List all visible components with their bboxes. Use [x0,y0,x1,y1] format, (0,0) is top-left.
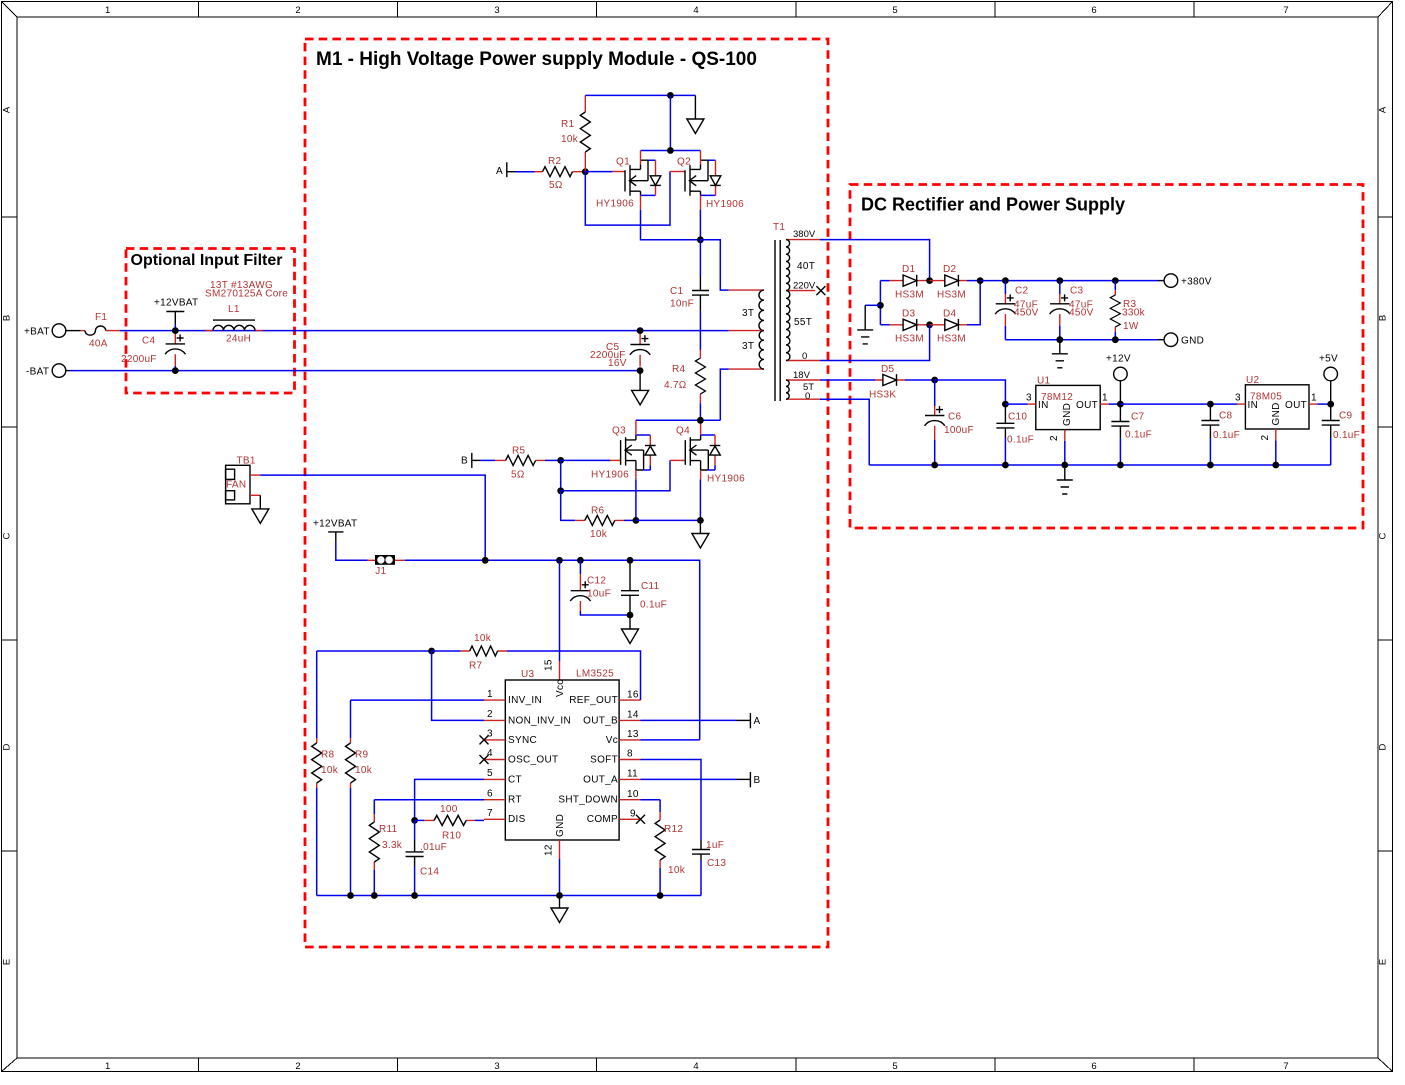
dashed box Optional Input Filter [126,249,295,394]
wire NON_INV_IN [432,651,484,720]
svg-text:GND: GND [1271,402,1282,425]
wire 5T zero tap to ground rail [820,399,869,465]
wire B node to Q3 gate [561,459,610,461]
svg-text:Q3: Q3 [612,426,626,437]
svg-text:3: 3 [494,1061,499,1072]
wire DC ground rail [869,464,1330,466]
junction R3 bottom [1112,336,1119,343]
svg-text:E: E [1378,959,1389,965]
svg-text:1uF: 1uF [706,840,724,851]
svg-text:1: 1 [1102,393,1108,404]
svg-text:16: 16 [627,689,639,700]
wire R7 left rail [317,650,432,652]
svg-text:OUT_B: OUT_B [583,715,618,726]
junction C10 bottom [1002,462,1009,469]
junction R9 bottom [347,892,354,899]
svg-text:7: 7 [1283,5,1288,16]
svg-text:D: D [1378,743,1389,750]
svg-text:2: 2 [487,709,493,720]
svg-text:+12VBAT: +12VBAT [313,519,357,530]
wire U3 ground rail [317,895,701,897]
svg-text:HY1906: HY1906 [591,470,629,481]
svg-text:HS3M: HS3M [937,290,966,301]
svg-text:INV_IN: INV_IN [508,695,542,706]
svg-text:C9: C9 [1339,411,1353,422]
svg-text:C4: C4 [142,336,156,347]
svg-text:0.1uF: 0.1uF [1213,430,1240,441]
svg-text:A: A [754,716,761,727]
svg-text:+5V: +5V [1319,354,1338,365]
svg-text:4: 4 [693,1061,698,1072]
svg-text:DIS: DIS [508,814,526,825]
transistor Q1 [596,151,661,210]
svg-text:LM3525: LM3525 [576,668,614,679]
capacitor C7 [1111,404,1152,465]
junction bridge anode mid [877,302,884,309]
svg-text:M1 - High Voltage Power supply: M1 - High Voltage Power supply Module - … [316,49,757,70]
junction U1 in node [1002,401,1009,408]
svg-text:SM270125A Core: SM270125A Core [205,289,288,300]
wire SHT_DOWN to R12 [641,799,661,801]
svg-text:18V: 18V [793,370,811,381]
svg-text:24uH: 24uH [226,334,251,345]
svg-text:7: 7 [1283,1061,1288,1072]
wire Q3 source to R6 node [635,479,637,520]
svg-text:C11: C11 [641,581,660,592]
junction U1 gnd [1061,462,1068,469]
junction C11/C12 ground node [627,612,634,619]
junction C11 branch [627,557,634,564]
resistor R4 [664,350,705,403]
svg-text:10k: 10k [321,765,339,776]
pin 12 wire to rail [559,859,561,896]
ground at U3 rail [551,896,568,923]
svg-text:8: 8 [627,749,633,760]
T1 primary winding lower 3T [729,331,764,370]
svg-text:TB1: TB1 [237,456,256,467]
svg-text:10uF: 10uF [587,589,611,600]
svg-text:C: C [2,532,13,539]
junction U2 gnd [1272,462,1279,469]
svg-text:0.1uF: 0.1uF [1333,430,1360,441]
diode D4 [930,309,967,345]
svg-text:6: 6 [1091,1061,1096,1072]
svg-text:COMP: COMP [587,814,618,825]
svg-text:D5: D5 [881,364,895,375]
svg-text:R8: R8 [321,750,335,761]
fuse F1 [66,312,120,350]
svg-text:D4: D4 [943,309,957,320]
wire Q2 source to center node [699,210,701,240]
frame column numbers top [105,5,1289,16]
wire lower node to primary bottom [720,369,728,420]
junction C8 top [1207,401,1214,408]
transistor Q4 [670,420,745,484]
ground at C5 [632,371,649,405]
junction B node upper [557,457,564,464]
svg-text:A: A [1378,106,1389,113]
resistor R5 [495,446,545,481]
T1 secondary 55T winding [786,281,820,363]
svg-text:D1: D1 [902,264,916,275]
svg-text:CT: CT [508,774,522,785]
svg-text:100uF: 100uF [944,425,974,436]
junction Q4 source node [697,517,704,524]
wire 380V ground rail [1005,339,1158,341]
ground earth at bridge [857,305,873,344]
wire -BAT rail [70,370,640,372]
wire top rail to drain rail [669,95,671,150]
svg-text:Q2: Q2 [677,157,691,168]
power tap +12VBAT (J1) [313,519,368,561]
svg-text:-BAT: -BAT [26,366,49,377]
resistor R3 [1110,281,1145,340]
svg-text:5Ω: 5Ω [511,470,525,481]
svg-text:4: 4 [487,748,493,759]
svg-text:T1: T1 [773,222,785,233]
junction +5V node [1327,401,1334,408]
svg-text:C14: C14 [420,867,439,878]
svg-text:0.1uF: 0.1uF [1007,435,1034,446]
resistor R11 [369,800,403,896]
wire 55T zero tap to D3/D4 [820,325,930,361]
junction C7 bottom [1117,462,1124,469]
junction R12 bottom [657,892,664,899]
svg-text:3: 3 [1235,393,1241,404]
port A (drive input) [496,162,515,177]
wire B node to Q4 gate [561,460,670,490]
svg-text:4: 4 [693,5,698,16]
svg-text:A: A [2,106,13,113]
wire +12V node to U2 [1120,403,1237,405]
svg-text:HY1906: HY1906 [706,199,744,210]
junction fan wire on rail [482,557,489,564]
resistor R9 [346,700,373,895]
junction rectifier output [977,277,984,284]
svg-text:0.1uF: 0.1uF [1125,430,1152,441]
U1 pin 3 stub [1026,393,1036,405]
transistor Q3 [591,420,656,480]
wire Vcc pin line [559,560,561,661]
wire R4 bottom to lower node [699,403,701,420]
resistor R12 [655,800,686,896]
junction CT/R10/C14 [411,817,418,824]
svg-text:SHT_DOWN: SHT_DOWN [558,795,618,806]
svg-text:HS3K: HS3K [869,390,896,401]
svg-text:+12VBAT: +12VBAT [154,297,198,308]
svg-text:B: B [1378,315,1389,321]
svg-text:10nF: 10nF [670,299,694,310]
no-connect X at COMP [636,815,645,824]
resistor R6 [575,506,624,541]
capacitor C3 [1050,281,1094,340]
junction R3 top [1112,277,1119,284]
U3 pin numbers left [487,689,493,819]
wire D5 to C6 node [905,379,935,381]
svg-text:Q1: Q1 [616,157,630,168]
wire center node to primary top [700,240,728,290]
svg-text:100: 100 [440,804,458,815]
svg-text:FAN: FAN [226,479,246,490]
junction top rail [667,92,674,99]
svg-text:IN: IN [1038,400,1049,411]
svg-text:Vc: Vc [606,735,618,746]
wire R5 to junction [545,459,561,461]
svg-text:U2: U2 [1246,375,1260,386]
svg-text:1: 1 [105,5,110,16]
wire bridge anode column [880,281,889,325]
junction C3 top [1056,277,1063,284]
resistor R2 [535,156,586,191]
svg-text:D: D [2,743,13,750]
svg-text:3: 3 [487,729,493,740]
capacitor C5 [590,334,650,369]
svg-text:C: C [1378,532,1389,539]
svg-text:F1: F1 [95,312,107,323]
wire 18V tap to D5 [820,379,876,381]
IC U1 78M12 [1036,376,1100,430]
terminal +12V [1106,354,1131,405]
svg-text:7: 7 [487,808,493,819]
svg-text:OUT_A: OUT_A [583,774,618,785]
svg-text:R12: R12 [664,824,683,835]
svg-text:2: 2 [295,5,300,16]
U2 pin 2 stub [1260,429,1276,441]
svg-text:3T: 3T [742,308,754,319]
svg-text:330k: 330k [1122,308,1146,319]
capacitor C11 [621,560,667,615]
svg-text:5Ω: 5Ω [549,180,563,191]
junction C5 bottom [637,367,644,374]
svg-text:A: A [496,166,503,177]
svg-text:U3: U3 [521,669,535,680]
U2 pin 3 stub [1235,393,1245,405]
svg-text:2200uF: 2200uF [121,354,157,365]
junction R11 bottom [371,892,378,899]
resistor R10 [415,804,484,842]
svg-text:3: 3 [494,5,499,16]
junction C8 bottom [1207,462,1214,469]
svg-text:10k: 10k [355,765,373,776]
no-connect X at 220V tap [816,286,825,295]
svg-text:+BAT: +BAT [24,326,50,337]
svg-text:C13: C13 [707,858,726,869]
svg-text:Optional Input Filter: Optional Input Filter [131,252,283,269]
capacitor C2 [995,281,1038,340]
wire U1 gnd to rail [1064,441,1066,465]
wire R6 branch [561,491,576,521]
junction R1/R2/Q1 gate [582,168,589,175]
svg-text:0: 0 [805,391,810,402]
junction C6 top [931,377,938,384]
svg-text:0.1uF: 0.1uF [640,600,667,611]
svg-text:GND: GND [1062,403,1073,426]
wire 380V tap to bridge [820,240,930,281]
pin 12 stub [544,840,560,859]
dashed box DC Rectifier and Power Supply [850,185,1363,529]
ground at R1 top rail [687,95,704,133]
svg-text:U1: U1 [1037,376,1051,387]
wire CT [415,779,484,820]
wire TB1 fan to +12V rail [260,475,485,560]
svg-text:10: 10 [627,789,639,800]
junction C6 bottom [931,462,938,469]
svg-text:5: 5 [892,1061,897,1072]
wire R6 to Q3 source node [624,519,636,521]
svg-text:40A: 40A [89,339,108,350]
junction drain rail [667,147,674,154]
svg-text:R7: R7 [469,661,483,672]
svg-text:1: 1 [487,689,493,700]
ground at C11 [622,615,639,644]
svg-text:R2: R2 [548,156,562,167]
junction C4 bottom [172,367,179,374]
T1 secondary 5T winding [786,370,820,402]
terminal +380V [1158,274,1212,288]
U1 pin 2 stub [1049,430,1065,441]
svg-text:B: B [461,455,468,466]
svg-text:.01uF: .01uF [420,842,447,853]
terminal +5V [1319,354,1338,405]
wire INV_IN [351,699,485,701]
diode D2 [930,264,967,301]
wire D2 out [967,280,980,282]
svg-text:SYNC: SYNC [508,735,537,746]
svg-text:D2: D2 [943,264,957,275]
U3 left pin stubs [484,700,505,819]
wire A to R2 [515,171,535,173]
svg-text:40T: 40T [797,261,815,272]
svg-text:D3: D3 [902,309,916,320]
terminal +BAT [24,324,66,338]
svg-text:DC Rectifier and Power Supply: DC Rectifier and Power Supply [861,195,1125,215]
IC U3 LM3525 [505,668,619,840]
wire C6 node to U1 in [935,380,1006,404]
svg-text:SOFT: SOFT [590,754,618,765]
svg-text:R4: R4 [672,364,686,375]
svg-text:HS3M: HS3M [895,334,924,345]
svg-text:C10: C10 [1008,412,1027,423]
wire lower drain rail [636,419,720,421]
capacitor C10 [996,404,1034,465]
svg-text:450V: 450V [1069,308,1094,319]
svg-text:C2: C2 [1015,286,1029,297]
ground at Q4 source [692,520,709,548]
wire +380V bus [980,280,1158,282]
svg-text:220V: 220V [793,281,816,292]
wire D4 out up [967,281,980,325]
TB1 pin 1 stub [250,474,260,476]
junction B node lower [557,487,564,494]
port A (output right) [737,713,761,728]
wire Q1/Q2 drain rail [641,150,701,152]
svg-text:13: 13 [627,729,639,740]
svg-text:C7: C7 [1131,412,1145,423]
diode D5 [869,364,905,401]
svg-text:14: 14 [627,710,639,721]
svg-text:1: 1 [105,1061,110,1072]
svg-text:6: 6 [487,788,493,799]
wire OUT_B to port A [641,719,737,721]
resistor R1 [561,95,590,171]
junction Q3 source node [633,517,640,524]
svg-text:HY1906: HY1906 [596,199,634,210]
wire A net to Q2 gate [585,172,670,226]
svg-text:1W: 1W [1123,321,1139,332]
svg-text:Q4: Q4 [676,426,690,437]
frame column numbers bottom [105,1061,1289,1072]
terminal -BAT [26,364,70,378]
svg-text:2: 2 [1260,435,1271,441]
junction center node top [697,236,704,243]
T1 primary winding upper 3T [729,290,764,331]
pin 15 stub [544,659,560,680]
junction lower node [697,417,704,424]
svg-text:450V: 450V [1014,308,1039,319]
frame row letters left [2,106,13,965]
wire OUT_A to port B [641,778,737,780]
svg-text:16V: 16V [608,358,627,369]
capacitor C8 [1201,404,1240,465]
svg-text:R9: R9 [355,750,369,761]
junction D3/D4 [926,321,933,328]
TB1 pin 2 stub to ground [250,494,260,496]
svg-text:C12: C12 [587,576,606,587]
svg-text:2: 2 [295,1061,300,1072]
wire Q3 source node to Q4 source node [636,519,701,521]
svg-text:12: 12 [544,844,555,856]
resistor R7 [432,633,507,672]
svg-text:R1: R1 [561,119,575,130]
svg-text:REF_OUT: REF_OUT [569,695,618,706]
svg-text:B: B [754,775,761,786]
capacitor C1 [670,240,709,350]
wire U1 out to +12V node [1109,403,1120,405]
junction D1/D2 [926,277,933,284]
junction C14 bottom [411,892,418,899]
T1 secondary 40T winding [786,229,820,291]
wire +12V rail (J1 to Vc corner) [405,560,700,740]
junction pin12 ground [556,892,563,899]
frame row letters right [1378,106,1389,965]
power tap +12VBAT (filter) [154,297,198,330]
svg-text:2: 2 [1049,435,1060,441]
svg-text:+12V: +12V [1106,354,1131,365]
capacitor C12 [570,560,630,615]
port B (output right) [737,772,761,787]
no-connect X at OSC_OUT [480,755,489,764]
capacitor C6 [925,380,974,465]
wire Q1 source to center node [641,210,701,240]
ground earth at C2/C3 rail [1052,340,1068,368]
svg-text:380V: 380V [793,229,816,240]
svg-text:11: 11 [627,769,638,780]
svg-text:C6: C6 [948,412,962,423]
svg-text:5: 5 [487,768,493,779]
svg-text:RT: RT [508,795,522,806]
wire B to R5 [480,459,495,461]
svg-text:3T: 3T [742,341,754,352]
svg-text:0: 0 [802,351,807,362]
junction C2 top [1002,277,1009,284]
svg-text:C3: C3 [1070,286,1084,297]
wire +BAT rail to transformer [120,330,729,332]
svg-text:C8: C8 [1219,411,1233,422]
transistor Q2 [670,151,744,211]
svg-text:IN: IN [1248,400,1259,411]
ground at TB1 [252,495,269,523]
wire SOFT to C13 [641,760,702,841]
